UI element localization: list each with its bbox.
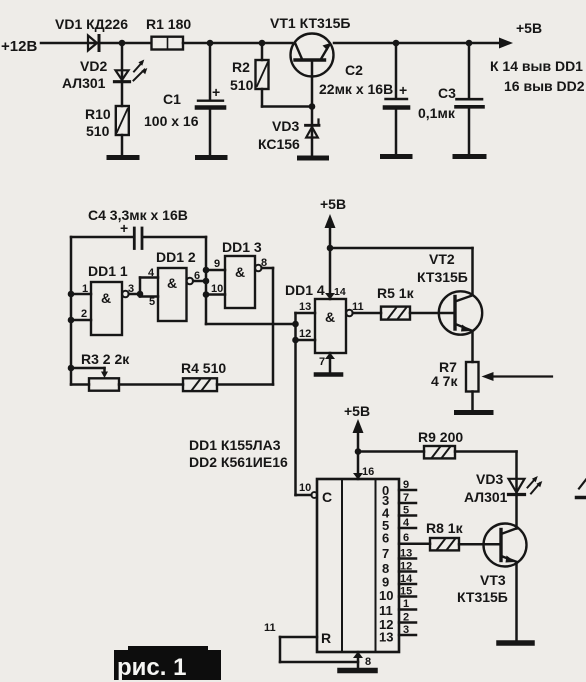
LED VD2 АЛ301 <box>62 58 147 91</box>
node junction C2 <box>393 40 400 47</box>
svg-text:VD3: VD3 <box>476 471 503 487</box>
node figure label рис. 1 <box>114 646 221 681</box>
svg-text:VD1 КД226: VD1 КД226 <box>55 16 128 32</box>
pin out 12/2 <box>379 612 409 633</box>
svg-text:VT1 КТ315Б: VT1 КТ315Б <box>270 15 350 31</box>
resistor R4 510 <box>181 360 226 391</box>
ground under R7 <box>457 410 492 415</box>
node dot pin2 bus <box>68 317 75 324</box>
node junction C1 <box>207 40 214 47</box>
pin 14 DD1.4 power entry <box>325 286 346 300</box>
svg-text:8: 8 <box>365 656 371 668</box>
svg-text:510: 510 <box>230 77 254 93</box>
svg-text:R9 200: R9 200 <box>418 429 463 445</box>
svg-text:8: 8 <box>261 257 267 269</box>
svg-text:12: 12 <box>299 328 311 340</box>
wire R3 to R4 <box>119 383 183 386</box>
node +5V arrow top <box>499 20 542 49</box>
pin 10 DD1.3 <box>206 283 225 295</box>
wire DD1.3 output feedback down <box>272 268 275 385</box>
wire R7 to ground <box>471 392 474 412</box>
svg-text:R: R <box>321 630 331 646</box>
svg-text:C: C <box>322 489 332 505</box>
capacitor C2 22мк x 16В <box>319 43 408 155</box>
zener VD3 КС156 <box>258 107 319 158</box>
svg-text:DD1 4: DD1 4 <box>285 282 325 298</box>
svg-text:R3 2 2к: R3 2 2к <box>81 351 130 367</box>
capacitor C4 3,3мк x 16В <box>71 207 206 249</box>
svg-text:КТ315Б: КТ315Б <box>417 269 468 285</box>
svg-text:7: 7 <box>382 546 389 561</box>
node dot R3 wiper bus <box>68 365 75 372</box>
node label DD1 DD2 types <box>189 437 288 470</box>
pin 11 DD2 reset <box>264 622 358 662</box>
svg-text:VD3: VD3 <box>272 118 299 134</box>
svg-text:R1 180: R1 180 <box>146 16 191 32</box>
resistor R9 200 <box>418 429 463 458</box>
wire VT3 emitter to ground <box>515 562 518 641</box>
wire junction column x206 <box>203 237 296 324</box>
wire DD2 pin6 to R8 <box>399 543 430 546</box>
svg-text:14: 14 <box>334 286 346 298</box>
resistor R3 2,2к trimmer <box>71 351 130 391</box>
svg-text:К 14 выв DD1: К 14 выв DD1 <box>490 58 583 74</box>
svg-text:6: 6 <box>403 532 409 544</box>
svg-text:10: 10 <box>299 482 311 494</box>
svg-text:DD1 3: DD1 3 <box>222 239 262 255</box>
node +5V arrow bottom <box>344 403 370 479</box>
svg-text:C2: C2 <box>345 62 363 78</box>
transistor VT2 КТ315Б <box>417 251 482 335</box>
DD2 output pin lines <box>399 490 416 635</box>
svg-text:C3: C3 <box>438 85 456 101</box>
svg-text:VD2: VD2 <box>80 58 107 74</box>
pin out 6/6 <box>382 531 409 546</box>
wire bus DD1.4 inputs <box>292 313 299 495</box>
wire +12V to VD1 anode <box>41 42 151 45</box>
svg-text:11: 11 <box>379 603 393 618</box>
pin 13 DD1.4 <box>296 301 316 313</box>
pin out 8/12 <box>382 561 412 577</box>
svg-text:1: 1 <box>403 598 409 610</box>
svg-text:&: & <box>325 309 335 325</box>
svg-text:АЛ301: АЛ301 <box>62 75 106 91</box>
svg-text:2: 2 <box>81 308 87 320</box>
svg-text:0,1мк: 0,1мк <box>418 105 456 121</box>
svg-text:22мк x 16В: 22мк x 16В <box>319 81 393 97</box>
resistor R7 4,7к variable <box>431 359 552 392</box>
svg-text:VT3: VT3 <box>480 572 506 588</box>
svg-text:510: 510 <box>86 123 110 139</box>
svg-text:5: 5 <box>149 296 155 308</box>
pin 3 DD1.1 output bubble <box>122 283 140 297</box>
wire left input bus of DD1.1 <box>70 237 73 385</box>
svg-text:+12В: +12В <box>1 38 37 55</box>
svg-text:4 7к: 4 7к <box>431 373 458 389</box>
wire +5V to R9 <box>358 450 424 453</box>
svg-text:7: 7 <box>319 356 325 368</box>
node continuation mark right edge <box>577 480 586 498</box>
wire R2 bottom to VT1 base node <box>262 89 312 107</box>
ground under zener <box>300 156 327 161</box>
capacitor C1 100x16 <box>144 43 224 156</box>
ground DD1.4 pin7 <box>316 372 341 377</box>
transistor VT3 КТ315Б <box>457 524 527 606</box>
svg-text:11: 11 <box>352 301 364 313</box>
pin out 9/14 <box>382 573 413 590</box>
pin 2 DD1.1 <box>71 308 91 320</box>
svg-text:R4 510: R4 510 <box>181 360 226 376</box>
pin 8 DD2 ground <box>353 652 371 669</box>
svg-text:&: & <box>235 264 245 280</box>
wire R1 to VT1 collector <box>183 42 292 45</box>
node +12V input <box>1 38 37 55</box>
node +5V arrow middle <box>320 196 346 299</box>
LED VD3 АЛ301 bottom <box>464 471 542 505</box>
wire R9 to LED anode <box>455 452 517 495</box>
svg-text:DD1 К155ЛА3: DD1 К155ЛА3 <box>189 437 281 453</box>
wire LED cathode to VT3 collector <box>515 497 518 529</box>
wire VT1 emitter to +5V arrow <box>334 42 501 45</box>
counter DD2 К561ИЕ16 <box>317 479 399 652</box>
svg-text:R10: R10 <box>85 106 111 122</box>
pin out 5/4 <box>382 517 410 533</box>
wire R2 branch down <box>261 43 264 60</box>
svg-text:6: 6 <box>382 531 389 546</box>
pin 10 DD2 clock input <box>296 482 317 498</box>
resistor R8 1к <box>426 520 464 550</box>
pin out 0/9 <box>382 479 409 498</box>
node junction base/zener <box>309 103 316 110</box>
resistor R2 510 <box>230 59 269 93</box>
svg-text:+5В: +5В <box>516 20 542 36</box>
capacitor C3 0,1мк <box>418 43 483 155</box>
svg-text:VT2: VT2 <box>429 251 455 267</box>
svg-text:13: 13 <box>299 301 311 313</box>
node label К 14 выв DD1 / 16 выв DD2 <box>490 58 585 94</box>
ground under VT3 <box>499 640 532 646</box>
svg-text:13: 13 <box>379 630 393 645</box>
svg-text:4: 4 <box>148 267 155 279</box>
svg-text:АЛ301: АЛ301 <box>464 489 508 505</box>
svg-text:DD1 1: DD1 1 <box>88 263 128 279</box>
svg-text:рис. 1: рис. 1 <box>117 654 186 681</box>
ground under C2 <box>383 154 411 159</box>
svg-text:&: & <box>167 275 177 291</box>
resistor R5 1к <box>377 285 415 320</box>
svg-text:+: + <box>212 84 220 100</box>
pin out 13/3 <box>379 624 409 645</box>
svg-text:КТ315Б: КТ315Б <box>457 589 508 605</box>
pin 8 DD1.3 output bubble <box>255 257 273 271</box>
pin 7 DD1.4 ground <box>319 353 335 374</box>
svg-text:КС156: КС156 <box>258 136 300 152</box>
DD2 output stubs and numbers <box>379 479 413 645</box>
resistor R1 180 <box>146 16 191 50</box>
ground under R10 <box>109 155 137 160</box>
pin 16 DD2 power entry <box>353 466 374 480</box>
svg-text:R5 1к: R5 1к <box>377 285 415 301</box>
svg-text:16: 16 <box>362 466 374 478</box>
node junction R2 <box>259 40 266 47</box>
ground under C1 <box>198 155 226 160</box>
ground under C3 <box>455 154 484 159</box>
svg-text:R8 1к: R8 1к <box>426 520 464 536</box>
wire junction column DD1.2 inputs <box>137 278 158 298</box>
pin out 3/7 <box>382 492 409 508</box>
wire VD2 branch down <box>121 43 124 81</box>
pin out 11/1 <box>379 598 409 618</box>
pin 12 DD1.4 <box>296 328 316 340</box>
svg-text:R2: R2 <box>232 59 250 75</box>
svg-text:1: 1 <box>82 283 88 295</box>
wire DD2 input from bus <box>294 494 297 497</box>
wire R5 to VT2 base <box>410 312 454 315</box>
node junction VD2 branch <box>119 40 126 47</box>
svg-text:10: 10 <box>379 588 393 603</box>
pin 1 DD1.1 <box>71 283 91 295</box>
wire VD2 to R10 <box>121 83 124 106</box>
wire R4 to DD1.3 output column <box>217 383 273 386</box>
svg-text:DD1 2: DD1 2 <box>156 249 196 265</box>
svg-text:9: 9 <box>214 258 220 270</box>
pin out 10/15 <box>379 586 412 604</box>
svg-text:C4 3,3мк x 16В: C4 3,3мк x 16В <box>88 207 188 223</box>
pin 6 DD1.2 output bubble <box>187 270 207 284</box>
svg-text:10: 10 <box>211 283 223 295</box>
svg-text:3: 3 <box>128 283 134 295</box>
gate DD1.4 <box>285 282 346 353</box>
svg-text:DD2 К561ИЕ16: DD2 К561ИЕ16 <box>189 454 288 470</box>
pin out 7/13 <box>382 546 412 561</box>
resistor R10 510 <box>85 106 129 139</box>
svg-text:16 выв DD2: 16 выв DD2 <box>504 78 585 94</box>
svg-text:&: & <box>101 290 111 306</box>
wire R10 to ground <box>121 135 124 156</box>
pin 11 DD1.4 output bubble <box>346 301 381 316</box>
node dot pin1 bus <box>68 291 75 298</box>
diode VD1 КД226 <box>55 16 128 51</box>
svg-text:C1: C1 <box>163 91 181 107</box>
svg-text:11: 11 <box>264 622 276 634</box>
wire +5V to VT2 collector <box>330 248 473 295</box>
svg-text:+5В: +5В <box>344 403 370 419</box>
gate DD1.2 <box>148 249 196 321</box>
node junction C3 <box>466 40 473 47</box>
gate DD1.1 <box>88 263 128 335</box>
svg-text:+5В: +5В <box>320 196 346 212</box>
svg-text:+: + <box>399 82 407 98</box>
pin 9 DD1.3 <box>206 258 225 270</box>
pin out 4/5 <box>382 505 409 521</box>
svg-text:6: 6 <box>194 270 200 282</box>
svg-text:100 x 16: 100 x 16 <box>144 113 199 129</box>
ground under DD2 <box>340 668 375 674</box>
wire R8 to VT3 base <box>459 543 500 546</box>
wire VT2 emitter to R7 <box>471 331 474 362</box>
gate DD1.3 <box>222 239 262 308</box>
transistor VT1 КТ315Б <box>270 15 350 107</box>
